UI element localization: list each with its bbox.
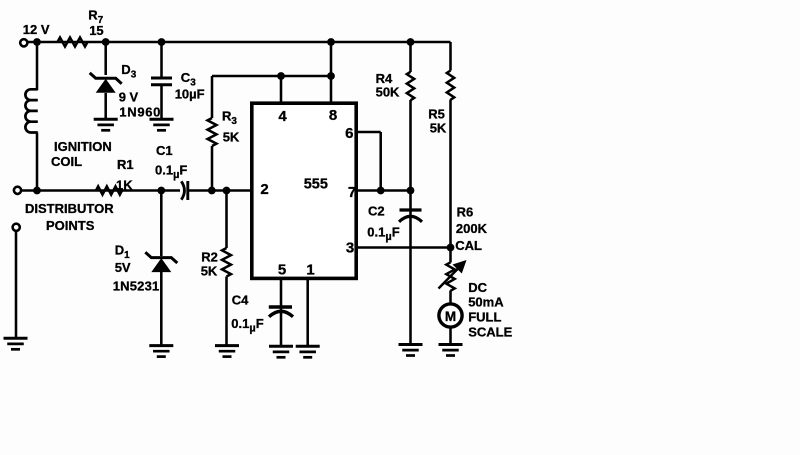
svg-text:4: 4 bbox=[278, 108, 287, 125]
svg-text:C2: C2 bbox=[368, 204, 385, 219]
svg-text:200K: 200K bbox=[456, 221, 488, 236]
svg-text:C1: C1 bbox=[156, 143, 173, 158]
svg-text:FULL: FULL bbox=[468, 310, 501, 325]
svg-text:1N5231: 1N5231 bbox=[113, 278, 160, 293]
svg-text:50mA: 50mA bbox=[468, 295, 504, 310]
svg-text:POINTS: POINTS bbox=[46, 218, 95, 233]
svg-text:C4: C4 bbox=[232, 293, 249, 308]
svg-text:COIL: COIL bbox=[51, 154, 82, 169]
svg-text:DISTRIBUTOR: DISTRIBUTOR bbox=[25, 201, 114, 216]
svg-text:5V: 5V bbox=[115, 260, 131, 275]
svg-text:6: 6 bbox=[345, 125, 353, 142]
svg-text:IGNITION: IGNITION bbox=[54, 139, 112, 154]
svg-text:50K: 50K bbox=[376, 84, 400, 99]
svg-text:10µF: 10µF bbox=[175, 87, 205, 102]
svg-text:5K: 5K bbox=[223, 129, 240, 144]
svg-text:8: 8 bbox=[329, 107, 337, 124]
svg-text:1N960: 1N960 bbox=[119, 104, 161, 119]
svg-text:15: 15 bbox=[89, 23, 103, 38]
svg-text:R2: R2 bbox=[201, 249, 218, 264]
svg-text:2: 2 bbox=[260, 181, 268, 198]
svg-text:3: 3 bbox=[346, 239, 354, 256]
svg-text:M: M bbox=[445, 309, 456, 324]
svg-text:12 V: 12 V bbox=[23, 22, 50, 37]
svg-text:R1: R1 bbox=[117, 157, 134, 172]
svg-text:9 V: 9 V bbox=[119, 89, 139, 104]
svg-text:SCALE: SCALE bbox=[468, 324, 512, 339]
svg-text:555: 555 bbox=[304, 177, 328, 193]
svg-text:CAL: CAL bbox=[455, 238, 482, 253]
svg-text:1K: 1K bbox=[116, 177, 133, 192]
svg-text:5: 5 bbox=[278, 262, 286, 279]
svg-text:R6: R6 bbox=[457, 204, 474, 219]
svg-text:5K: 5K bbox=[430, 120, 447, 135]
svg-text:DC: DC bbox=[468, 280, 487, 295]
svg-text:7: 7 bbox=[348, 184, 356, 201]
svg-text:1: 1 bbox=[306, 262, 314, 279]
svg-text:5K: 5K bbox=[201, 264, 218, 279]
